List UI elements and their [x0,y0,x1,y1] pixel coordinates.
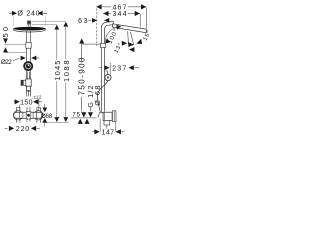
dim 50 top arrow [3,38,8,43]
pipe front [27,31,31,96]
dim 220 dash right [36,127,39,129]
dim Ø22 dash right [37,57,40,59]
dim 1088 vertical line [65,27,67,117]
tilt arrow T2 [128,42,133,47]
head joint step [112,21,115,27]
pipe collar front [26,42,31,48]
dim 147 dash right [121,131,124,133]
pipe front lower stub [27,107,30,112]
dim Ø22 arrow left [21,56,26,61]
dim Ø240 line left [9,12,12,14]
head slab side [113,24,147,33]
G12 leader arrow [88,112,93,117]
dim 150 ext right [38,99,40,111]
mixer body separators [19,112,36,118]
ext line right 467 [145,8,147,29]
dim 237 ext line [109,63,111,75]
dim Ø22 arrow right [31,56,36,61]
mixer side leg [104,120,110,125]
dim 237 dash left [99,67,103,69]
dim 50 ref line B [5,52,26,54]
mixer side drain [106,125,108,129]
mixer side hose bell [98,112,104,117]
G12 leader line [90,107,92,112]
dim 750-900 bottom arrow [81,112,86,117]
ext line right 344 [139,14,141,28]
dim Ø240 arrow left [12,11,17,16]
dim 467 arrow left [96,4,101,9]
svg-text:Ø 240: Ø 240 [17,11,39,18]
tilt arrow T3 [129,47,134,52]
mixer side top line [71,117,97,119]
dim 750-900 upper line [81,44,83,62]
hand shower head front inner ring [25,63,31,69]
label 1088 rotated [63,60,70,83]
dim 1045 bottom arrow [54,117,59,122]
dim Ø240 line right [43,12,47,14]
dim 750-900 top arrow [79,38,84,43]
hose stub front [28,91,30,97]
svg-text:237: 237 [112,66,126,73]
svg-text:75: 75 [72,113,80,119]
head disc front lower rim [13,30,45,33]
dim 75 up arrow a [78,119,83,124]
dim Ø240 ext line right [45,17,47,27]
bottom ext line front [46,121,69,123]
holder pivot side [105,74,111,80]
hand shower head front dot [28,64,30,66]
dim 344 line [103,13,140,15]
tilt line L1 [127,31,130,44]
svg-text:220: 220 [16,126,29,133]
side pipe collar [100,43,105,47]
ext line 1045 top [32,24,57,26]
dim 220 dash left [5,127,8,129]
svg-text:150: 150 [20,100,32,107]
angle arc 100 [105,27,119,42]
svg-text:Ø 68: Ø 68 [95,86,102,106]
dim Ø68 front top line [44,104,46,108]
hand shower handle front [27,72,29,79]
dim 63 arrow left-pointing [104,18,109,23]
arc arrow upper [116,25,121,30]
dim 75 up arrow b [84,119,89,124]
svg-text:Ø22: Ø22 [1,59,13,66]
dim 1045 vertical line [56,30,58,117]
svg-text:1088: 1088 [62,61,71,83]
hose side [98,81,109,112]
holder sleeve front [26,79,31,86]
mixer union stubs bottom [16,118,40,122]
ball joint front [27,21,30,24]
svg-text:147: 147 [102,130,114,137]
side pipe [102,27,105,112]
dim 50 bottom arrow [3,47,8,52]
hand shower head front outer [23,61,33,71]
dim Ø68 front bottom arrow [42,118,47,123]
dim 237 dash right [134,67,139,69]
dim 750-900 top ref line [82,43,101,45]
svg-text:1045: 1045 [53,61,62,81]
dim Ø22 leader dash [13,58,20,61]
mixer side wall stack [112,111,116,122]
dim 147 dash left [92,131,95,133]
mixer escutcheon right [34,111,43,120]
head disc front [13,27,46,31]
mixer side body [103,112,112,120]
tilt arrow T4 [136,39,142,44]
mixer union stubs top [16,108,40,112]
arc arrow lower [105,38,110,43]
dim 150 ext left [19,105,21,111]
dim 344 arrow left [103,11,108,16]
svg-text:Ø68: Ø68 [41,113,53,120]
dim 147 ext left [99,119,101,132]
dim 750-900 lower line [81,97,83,112]
label 1045 rotated [54,60,61,81]
dim 147 arrow left [94,129,99,134]
svg-text:750-900: 750-900 [78,57,87,96]
dim 344 arrow right [135,11,140,16]
dim 237 arrow left [104,65,109,70]
mixer body front [14,112,43,118]
holder bracket front [21,80,27,85]
dim 220 arrow left [9,126,14,131]
dim 147 arrow right [116,129,121,134]
dim 237 arrow right [129,65,134,70]
dim 63 arrow right-pointing [92,18,97,23]
dim Ø240 arrow right [38,11,43,16]
dim 147 ext right [115,122,117,132]
dim 467 arrow right [141,4,146,9]
dim Ø68 front top arrow [42,108,47,113]
dim 1088 bottom arrow [63,117,68,122]
dim 150 arrow right [33,99,38,104]
tilt arrow T1 [122,41,127,46]
mixer escutcheon left [13,111,22,120]
svg-text:±12: ±12 [33,94,42,99]
dim Ø68 front bottom line [44,123,46,127]
dim 1088 top arrow [63,22,68,27]
handle end bulge front [27,86,31,91]
svg-text:344: 344 [113,11,127,18]
ext line 1088 top [32,21,66,23]
svg-text:G 1/2: G 1/2 [88,86,95,108]
tilt line L2 [130,32,133,45]
wall line dashed [96,9,98,47]
dim Ø240 ext line left [12,17,14,27]
svg-text:63: 63 [78,18,87,25]
dim 50 ref line A [5,44,26,46]
side pipe elbow [102,22,109,29]
dim 63 dash [88,19,91,21]
mixer side body line [104,112,106,120]
dim 1045 top arrow [54,25,59,30]
dim 220 arrow right [31,126,36,131]
mixer center piece [26,112,31,119]
dim 467 line [96,6,146,8]
arm side [107,21,113,25]
dim 150 arrow left [14,101,16,103]
holder stub side [105,71,108,75]
